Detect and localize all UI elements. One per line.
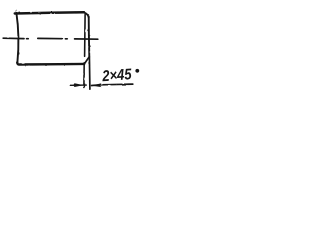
svg-text:2×45: 2×45 xyxy=(101,66,133,85)
top chamfer xyxy=(84,13,89,18)
shaft bottom outline xyxy=(17,62,84,64)
shaft top outline xyxy=(15,12,84,13)
leader shelf xyxy=(92,84,133,85)
centerline dash 3 xyxy=(75,38,98,40)
degree dot xyxy=(135,69,139,73)
centerline dot 2 xyxy=(65,38,67,40)
centerline dash 1 xyxy=(3,37,24,39)
leader arrowhead left-pointing xyxy=(91,83,101,87)
shaft left edge xyxy=(16,13,18,63)
centerline dot 1 xyxy=(27,38,29,40)
speckle above top-left corner xyxy=(15,10,17,12)
dimension line xyxy=(70,84,86,86)
extension line right xyxy=(88,57,91,89)
end face xyxy=(88,17,91,57)
chamfer edge line xyxy=(84,15,87,57)
chamfer dimension text 2x45 deg xyxy=(101,66,133,85)
centerline dash 2 xyxy=(38,37,63,39)
bottom chamfer xyxy=(85,57,90,64)
extension line left xyxy=(83,63,85,88)
dimension arrowhead right-pointing xyxy=(74,83,84,87)
